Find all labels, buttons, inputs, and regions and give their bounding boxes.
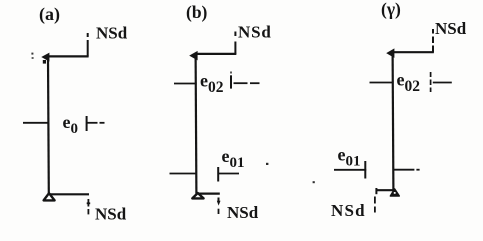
- top beam stub (gamma): [391, 51, 434, 53]
- pin support triangle (gamma): [390, 189, 399, 196]
- top beam stub (b): [196, 53, 237, 55]
- dimension line e01 left segment (b): [170, 173, 198, 175]
- svg-text:e02: e02: [200, 71, 224, 97]
- top beam stub (a): [47, 55, 89, 57]
- load arrow bottom (b): [217, 198, 221, 215]
- svg-text:e01: e01: [338, 145, 361, 170]
- load line of action N_Sd top (a): [87, 33, 89, 57]
- stray scan speck colon left of (a): [31, 53, 33, 59]
- pin support triangle (b): [192, 193, 203, 198]
- bottom beam stub (gamma): [376, 189, 393, 191]
- dimension tail right e02 (gamma): [433, 82, 452, 84]
- svg-text:NSd: NSd: [95, 205, 127, 224]
- svg-text:(γ): (γ): [381, 0, 401, 19]
- column line (gamma): [392, 53, 395, 191]
- dimension tail right e01 (b): [218, 173, 239, 175]
- arrowhead at column top (a): [41, 53, 49, 62]
- bottom beam stub (a): [48, 193, 90, 195]
- column line (b): [195, 54, 198, 194]
- dimension dotted tick at load axis e02 (gamma): [430, 72, 432, 92]
- svg-text:(b): (b): [186, 2, 208, 22]
- dimension line e0 left segment (a): [23, 122, 49, 124]
- dimension line e01 left segment (gamma): [334, 169, 366, 171]
- dimension tick at load axis e02 (b): [230, 72, 232, 89]
- bottom beam stub (b): [196, 193, 220, 195]
- load arrow bottom (a): [87, 199, 91, 214]
- dimension tail right e02 (b) dashed: [234, 82, 260, 84]
- svg-text:NSd: NSd: [435, 19, 467, 38]
- load line of action N_Sd top (gamma) dashed: [432, 29, 434, 53]
- stray speck dot right of e01 (b): [266, 163, 268, 165]
- svg-text:NSd: NSd: [331, 201, 366, 220]
- arrowhead at column top (gamma): [386, 48, 394, 58]
- svg-text:NSd: NSd: [96, 24, 128, 43]
- arrowhead at column top (b): [189, 51, 197, 61]
- pin support triangle (a): [44, 193, 55, 200]
- load line of action bottom (gamma) dashed: [374, 197, 376, 213]
- dimension tick at load axis e01 (b): [217, 167, 219, 182]
- dimension tick at load axis e01 (gamma): [364, 161, 366, 179]
- svg-text:NSd: NSd: [238, 23, 272, 42]
- dimension tail right e01 (gamma): [393, 169, 420, 171]
- svg-text:(a): (a): [39, 4, 60, 25]
- svg-text:e01: e01: [222, 146, 245, 171]
- dimension line e02 left segment (gamma): [370, 82, 394, 84]
- dimension tick at load axis e0 (a): [86, 116, 88, 131]
- tick at left end of bottom stub (gamma): [375, 188, 377, 194]
- white sparkle inside support (gamma): [394, 192, 396, 194]
- stray speck dot (lower middle right): [313, 181, 315, 183]
- dimension tail right e0 (a): [87, 122, 105, 124]
- column line (a): [47, 57, 50, 194]
- svg-text:NSd: NSd: [227, 203, 259, 222]
- dimension line e02 left segment (b): [174, 83, 197, 85]
- svg-text:e0: e0: [63, 112, 79, 137]
- load line of action N_Sd top (b): [234, 32, 236, 55]
- svg-text:e02: e02: [397, 70, 421, 96]
